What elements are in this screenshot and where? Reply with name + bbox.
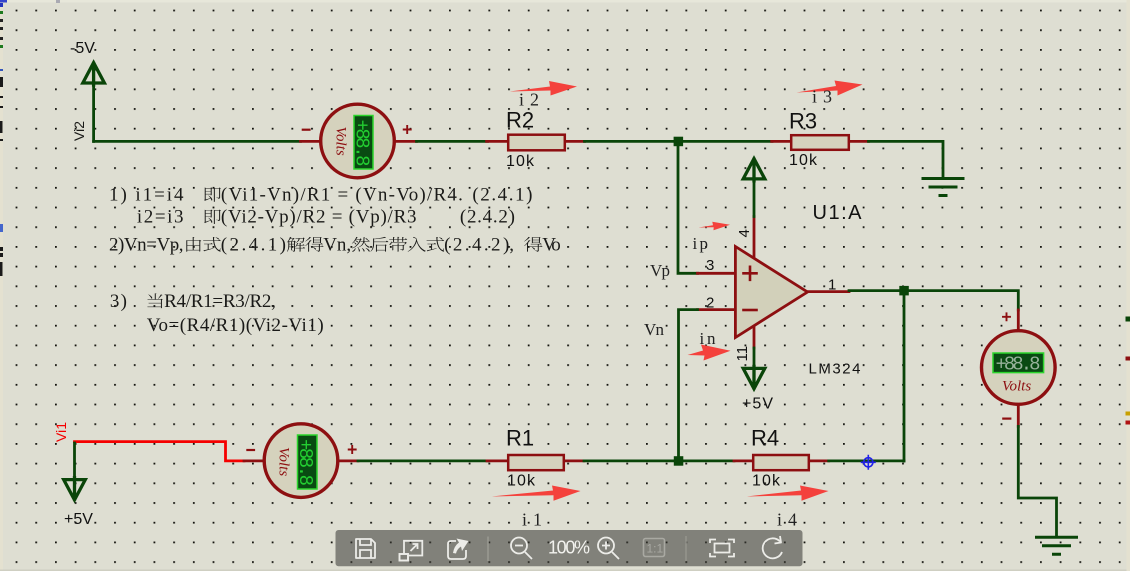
svg-text:(2.4.1): (2.4.1) — [472, 185, 532, 206]
ground (right of R3) — [923, 179, 963, 196]
svg-text:+5V: +5V — [64, 511, 93, 528]
op-amp U1 pin4 stub — [753, 217, 756, 259]
wire VM1 to R2 — [417, 140, 488, 143]
op-amp U1 pin11 stub — [753, 326, 756, 348]
svg-text:(2.4.2): (2.4.2) — [460, 207, 515, 228]
svg-text:4: 4 — [736, 229, 753, 237]
svg-text:Vo: Vo — [542, 235, 561, 256]
svg-text:(2.4.2): (2.4.2) — [444, 235, 509, 256]
wire node Vp to R3 — [678, 140, 772, 143]
svg-text:Vp: Vp — [650, 261, 670, 280]
right edge strip — [1126, 0, 1130, 571]
svg-text:R4: R4 — [751, 426, 779, 451]
voltmeter VM3 pins — [1017, 310, 1020, 426]
svg-text:R4/R1=R3/R2,: R4/R1=R3/R2, — [164, 291, 276, 312]
icon 1:1 (disabled) — [644, 539, 665, 557]
svg-text:i2=i3: i2=i3 — [137, 207, 184, 228]
op-amp plus mark — [744, 267, 757, 280]
power -5V — [70, 40, 104, 85]
wire output node down to feedback — [903, 291, 906, 461]
svg-text:2: 2 — [706, 295, 714, 312]
icon refresh — [763, 536, 782, 558]
svg-text:100%: 100% — [548, 538, 590, 558]
power +5V below op-amp (down arrow) — [742, 366, 773, 412]
separator 2 — [685, 536, 687, 561]
current arrow i2 — [510, 81, 578, 96]
top edge strip — [0, 0, 1130, 3]
svg-text:11: 11 — [734, 346, 751, 362]
left edge strip — [0, 0, 3, 571]
svg-text:10k: 10k — [789, 152, 818, 169]
power +5V bottom-left (down arrow) — [64, 478, 94, 528]
wire pin2 to node Vn — [679, 310, 698, 461]
annotation line 4 — [110, 291, 276, 312]
current arrow in — [688, 345, 731, 361]
svg-text:Vi2: Vi2 — [71, 121, 87, 141]
op-amp U1 pin3 red — [698, 272, 736, 275]
wire Vi1 red — [75, 442, 245, 461]
wire Vi2 horizontal — [94, 140, 301, 143]
wire R4 to output node — [829, 459, 904, 462]
voltmeter VM2 pins — [244, 459, 358, 462]
resistor R3 leads — [772, 140, 869, 143]
icon fit screen — [710, 540, 734, 557]
svg-text:10k: 10k — [507, 473, 536, 490]
svg-text:10k: 10k — [506, 153, 535, 170]
svg-text:-5V: -5V — [70, 40, 95, 57]
wire VM3 to ground — [1018, 426, 1056, 536]
svg-text:Vn: Vn — [644, 320, 665, 339]
icon zoom in — [598, 538, 619, 560]
power arrow above op-amp — [743, 159, 765, 181]
wire Vi1 stub green down — [73, 443, 76, 478]
icon share — [448, 539, 469, 560]
op-amp minus mark — [744, 309, 757, 312]
separator — [487, 537, 489, 562]
op-amp U1 pin2 red — [698, 308, 736, 311]
toolbar bar — [336, 530, 803, 566]
icon zoom out — [511, 538, 532, 560]
current arrow i3 — [797, 81, 863, 96]
annotation line 1 — [109, 185, 532, 206]
wire Vi2 vertical — [92, 83, 95, 141]
annotation line 2 — [137, 207, 515, 228]
resistor R3 — [789, 109, 849, 170]
wire output to junction — [849, 289, 904, 292]
resistor R1 — [506, 426, 564, 490]
voltmeter VM2 — [247, 424, 355, 498]
origin marker — [862, 456, 875, 469]
svg-text:2)Vn=Vp,: 2)Vn=Vp, — [109, 235, 184, 256]
wire pin4 to power — [753, 180, 756, 217]
annotation line 5 — [147, 315, 324, 336]
svg-text:+88.8: +88.8 — [294, 439, 316, 486]
svg-text:Volts: Volts — [1002, 379, 1031, 395]
svg-text:(Vi2-Vp)/R2 = (Vp)/R3: (Vi2-Vp)/R2 = (Vp)/R3 — [221, 207, 417, 228]
resistor R2 — [506, 108, 565, 171]
junction output node — [899, 286, 909, 296]
ground (bottom right) — [1037, 537, 1077, 554]
resistor R4 — [751, 426, 809, 490]
svg-text:LM324: LM324 — [809, 361, 861, 378]
wire R2 to node Vp — [585, 140, 679, 143]
resistor R2 leads — [487, 140, 585, 143]
junction node Vp — [674, 137, 684, 147]
voltmeter VM1 — [303, 104, 411, 178]
icon export window — [400, 541, 423, 561]
svg-text:,: , — [509, 235, 514, 256]
junction node Vn — [674, 456, 684, 466]
wire VM2 to R1 — [358, 459, 488, 462]
svg-text:3: 3 — [706, 257, 714, 274]
svg-text:1:1: 1:1 — [647, 542, 664, 556]
svg-text:Volts: Volts — [333, 127, 349, 156]
wire node Vn to R4 — [679, 459, 735, 462]
svg-text:10k: 10k — [752, 473, 781, 490]
current arrow i4 — [747, 486, 829, 501]
svg-text:R1: R1 — [506, 426, 534, 451]
svg-text:(2.4.1): (2.4.1) — [221, 235, 286, 256]
svg-text:(Vi1-Vn)/R1 = (Vn-Vo)/R4.: (Vi1-Vn)/R1 = (Vn-Vo)/R4. — [221, 185, 463, 206]
wire R3 to ground — [869, 141, 944, 177]
annotation line 3 — [109, 235, 561, 256]
resistor R4 leads — [734, 459, 829, 462]
svg-text:+88.8: +88.8 — [996, 354, 1041, 376]
bottom edge line — [0, 570, 1130, 571]
wire node Vp down to pin3 — [678, 141, 698, 273]
svg-text:U1:A: U1:A — [813, 202, 863, 224]
svg-text:+5V: +5V — [742, 396, 773, 413]
svg-text:Vi1: Vi1 — [53, 422, 69, 442]
voltmeter VM3 — [982, 313, 1056, 418]
svg-text:+88.8: +88.8 — [351, 120, 373, 167]
wire pin11 to power — [753, 348, 756, 367]
svg-text:R3: R3 — [789, 109, 817, 134]
svg-text:Volts: Volts — [275, 447, 291, 476]
svg-text:ip: ip — [693, 234, 709, 253]
wire output node to VM3 — [904, 291, 1018, 310]
wire R1 to node Vn — [584, 459, 679, 462]
svg-text:Vo=(R4/R1)(Vi2-Vi1): Vo=(R4/R1)(Vi2-Vi1) — [147, 315, 324, 336]
resistor R1 leads — [487, 459, 584, 462]
current arrow ip — [699, 222, 731, 231]
voltmeter VM1 pins — [301, 140, 417, 143]
svg-text:3): 3) — [110, 291, 127, 312]
svg-text:R2: R2 — [506, 108, 534, 133]
op-amp output red — [808, 290, 850, 293]
current arrow i1 — [492, 486, 581, 501]
icon save — [356, 539, 375, 558]
op-amp U1:A body — [735, 247, 807, 338]
svg-text:Vn,: Vn, — [323, 235, 351, 256]
